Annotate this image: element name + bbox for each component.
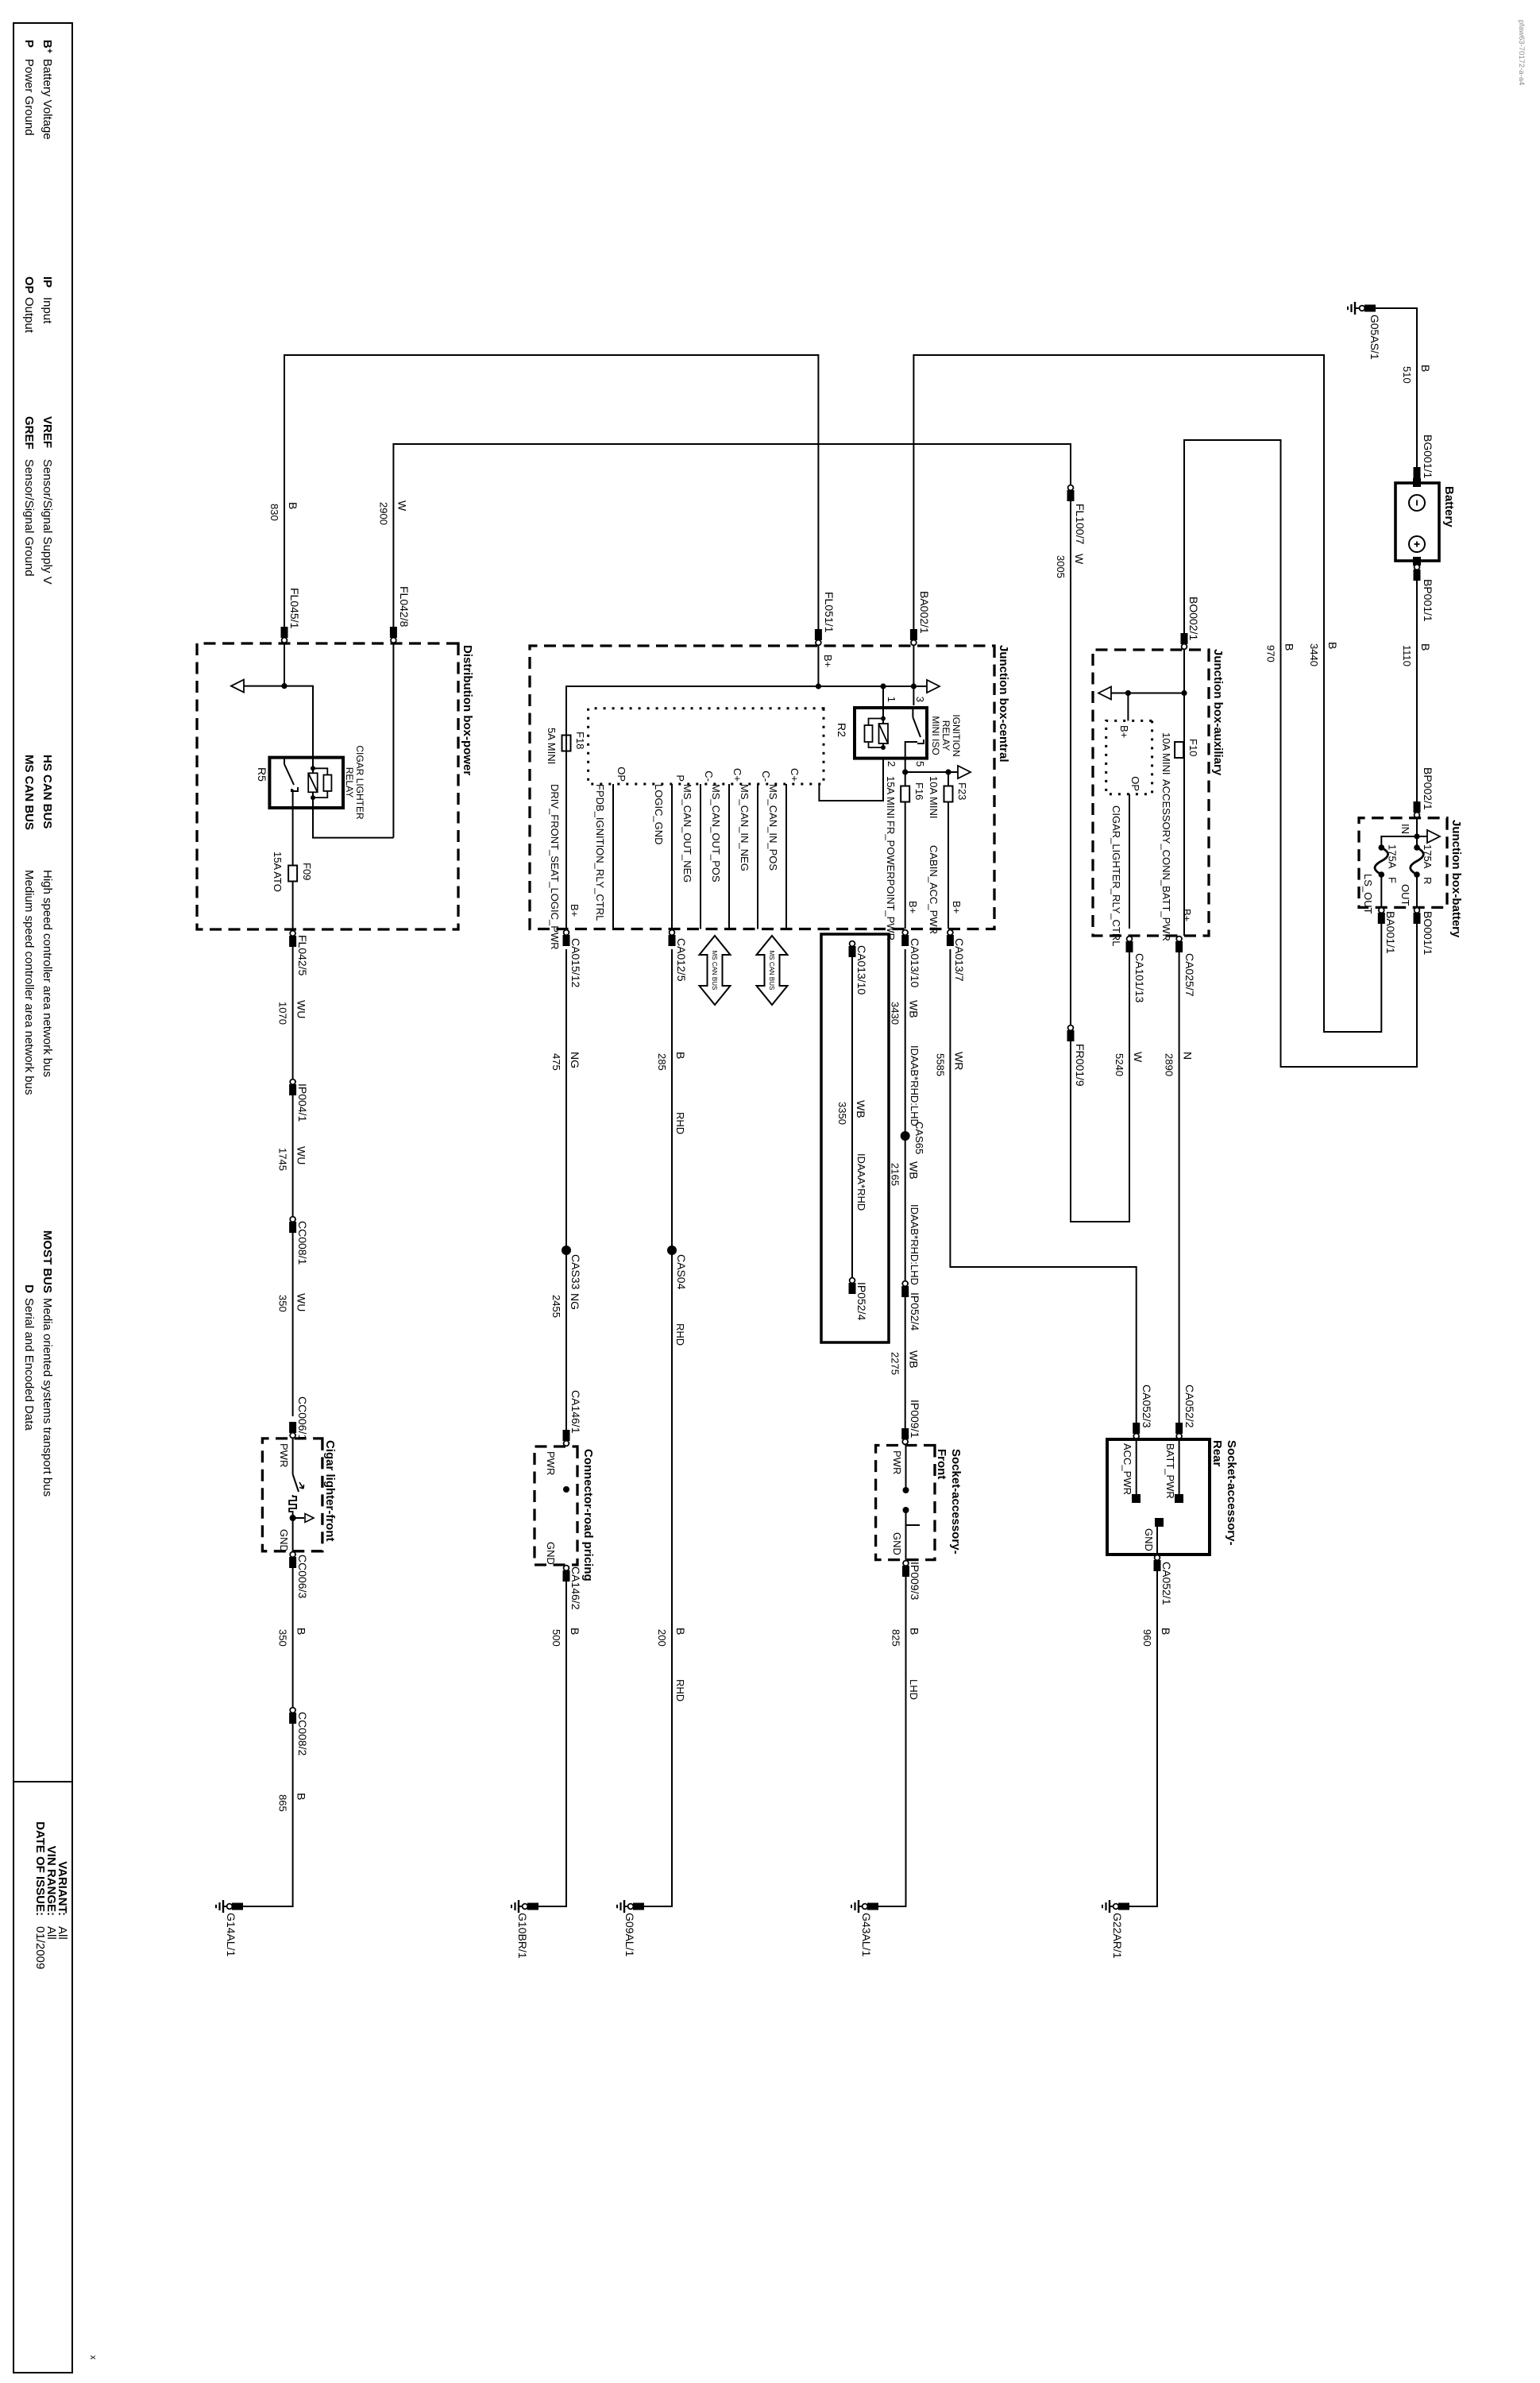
svg-text:510: 510 bbox=[1401, 366, 1413, 384]
battery bbox=[1395, 483, 1439, 561]
svg-text:Medium speed controller area n: Medium speed controller area network bus bbox=[22, 870, 36, 1095]
svg-text:3005: 3005 bbox=[1055, 555, 1067, 578]
svg-text:IP009/3: IP009/3 bbox=[909, 1562, 921, 1600]
svg-text:15A ATO: 15A ATO bbox=[272, 852, 284, 892]
svg-text:W: W bbox=[396, 500, 408, 512]
connector CA101/13 bbox=[1126, 941, 1133, 952]
connector IP052/4 powerpoint bbox=[901, 1286, 909, 1297]
svg-text:175A: 175A bbox=[1386, 844, 1398, 869]
connector CA052/1 bbox=[1129, 1555, 1157, 1906]
wire B 830 branch bbox=[284, 355, 818, 686]
ground G05AS/1 bbox=[1355, 307, 1359, 309]
pin5 output wire bbox=[905, 759, 906, 929]
svg-text:Cigar lighter-front: Cigar lighter-front bbox=[323, 1440, 337, 1542]
svg-text:1: 1 bbox=[886, 697, 897, 702]
svg-text:IP: IP bbox=[41, 276, 54, 288]
rear socket GND pin bbox=[1155, 1518, 1164, 1527]
svg-text:B: B bbox=[674, 1052, 687, 1059]
connector FL045/1 bbox=[281, 627, 288, 638]
connector CA025/7 bbox=[1175, 941, 1183, 952]
B+ bus bbox=[566, 686, 928, 929]
wire B 970 to junction box-auxiliary bbox=[1184, 440, 1417, 1067]
connector BO001/1 bbox=[1414, 913, 1421, 924]
svg-text:3430: 3430 bbox=[890, 1002, 901, 1025]
svg-text:CA025/7: CA025/7 bbox=[1183, 953, 1196, 997]
R5 coil return bbox=[313, 798, 393, 838]
svg-text:LOGIC_GND: LOGIC_GND bbox=[653, 784, 665, 845]
svg-text:LHD: LHD bbox=[908, 1679, 920, 1700]
svg-text:825: 825 bbox=[890, 1629, 902, 1647]
svg-text:IP004/1: IP004/1 bbox=[296, 1083, 309, 1122]
svg-text:285: 285 bbox=[656, 1053, 668, 1071]
svg-text:CA146/1: CA146/1 bbox=[569, 1390, 582, 1434]
svg-text:3: 3 bbox=[914, 697, 926, 702]
svg-text:F23: F23 bbox=[956, 782, 968, 800]
svg-text:BATT_PWR: BATT_PWR bbox=[1164, 1443, 1176, 1499]
svg-text:2890: 2890 bbox=[1164, 1053, 1175, 1076]
wire WB 3350 bbox=[851, 941, 853, 1293]
svg-text:GND: GND bbox=[891, 1532, 903, 1555]
svg-text:GND: GND bbox=[1143, 1528, 1155, 1551]
svg-text:5585: 5585 bbox=[934, 1053, 946, 1076]
connector CC008/2 bbox=[289, 1713, 296, 1724]
connector CA013/10 powerpoint bbox=[901, 935, 909, 946]
svg-text:CC008/1: CC008/1 bbox=[296, 1221, 309, 1265]
arrow up bbox=[1417, 836, 1429, 837]
svg-text:R2: R2 bbox=[836, 723, 848, 737]
connector BA001/1 bbox=[1378, 913, 1385, 924]
R2 coil bbox=[882, 708, 884, 747]
svg-text:WU: WU bbox=[295, 1293, 308, 1311]
svg-text:IP052/4: IP052/4 bbox=[909, 1292, 921, 1331]
svg-text:350: 350 bbox=[277, 1295, 289, 1312]
svg-text:RHD: RHD bbox=[674, 1112, 686, 1134]
junction box-central bbox=[530, 646, 994, 929]
svg-text:WB: WB bbox=[855, 1100, 867, 1118]
svg-text:G10BR/1: G10BR/1 bbox=[516, 1913, 529, 1959]
svg-text:FL042/5: FL042/5 bbox=[296, 935, 309, 976]
ground G43AL/1 bbox=[867, 1903, 878, 1910]
svg-text:DRIV_FRONT_SEAT_LOGIC_PWR: DRIV_FRONT_SEAT_LOGIC_PWR bbox=[549, 784, 561, 950]
connector CC006/3 bbox=[242, 1551, 293, 1906]
wire B 3440 feed bbox=[913, 355, 1381, 1032]
svg-text:B: B bbox=[1160, 1628, 1172, 1635]
svg-text:3350: 3350 bbox=[836, 1102, 848, 1125]
svg-text:CA101/13: CA101/13 bbox=[1133, 953, 1146, 1002]
svg-text:B+: B+ bbox=[1118, 725, 1130, 738]
wire MS_CAN_IN_NEG bbox=[757, 784, 758, 929]
svg-text:F: F bbox=[1386, 877, 1398, 883]
svg-text:PWR: PWR bbox=[278, 1443, 290, 1467]
aux module dotted box bbox=[1106, 720, 1152, 794]
svg-text:B+: B+ bbox=[1181, 909, 1193, 921]
svg-text:MS CAN BUS: MS CAN BUS bbox=[768, 951, 775, 991]
svg-text:FL051/1: FL051/1 bbox=[823, 592, 836, 633]
svg-text:BO002/1: BO002/1 bbox=[1187, 597, 1200, 640]
svg-text:CC006/3: CC006/3 bbox=[296, 1555, 309, 1598]
svg-text:NG: NG bbox=[569, 1052, 581, 1068]
cigar lighter-front box bbox=[262, 1439, 322, 1551]
svg-text:WB: WB bbox=[908, 1000, 921, 1018]
connector-road pricing box bbox=[535, 1446, 577, 1565]
svg-text:Junction box-auxiliary: Junction box-auxiliary bbox=[1211, 649, 1225, 776]
svg-text:IP052/4: IP052/4 bbox=[855, 1282, 868, 1320]
svg-text:B: B bbox=[674, 1628, 687, 1635]
svg-text:475: 475 bbox=[550, 1053, 562, 1071]
svg-text:B+: B+ bbox=[569, 904, 581, 917]
svg-text:2: 2 bbox=[886, 761, 897, 767]
svg-text:G05AS/1: G05AS/1 bbox=[1368, 315, 1381, 360]
svg-text:Sensor/Signal Supply V: Sensor/Signal Supply V bbox=[41, 459, 54, 585]
svg-text:CAS65: CAS65 bbox=[913, 1122, 925, 1154]
svg-text:CA015/12: CA015/12 bbox=[569, 938, 582, 987]
svg-text:R5: R5 bbox=[256, 767, 268, 782]
wire MS_CAN_OUT_NEG bbox=[700, 784, 701, 929]
svg-text:x: x bbox=[88, 2355, 98, 2360]
svg-text:FPDB_IGNITION_RLY_CTRL: FPDB_IGNITION_RLY_CTRL bbox=[594, 784, 606, 921]
relay R2 bbox=[855, 708, 927, 759]
svg-text:175A: 175A bbox=[1422, 844, 1434, 869]
svg-text:HS CAN BUS: HS CAN BUS bbox=[41, 755, 54, 828]
svg-text:MS_CAN_OUT_NEG: MS_CAN_OUT_NEG bbox=[681, 784, 693, 883]
wire NG 475 seat logic bbox=[565, 686, 567, 929]
connector BG001/1 bbox=[1414, 467, 1421, 478]
svg-text:5: 5 bbox=[914, 761, 926, 767]
connector IP009/3 bbox=[878, 1560, 906, 1906]
socket-accessory-front box bbox=[876, 1446, 935, 1560]
svg-text:10A MINI: 10A MINI bbox=[1160, 732, 1172, 774]
svg-text:MINI ISO: MINI ISO bbox=[930, 716, 941, 755]
ground G10BR/1 bbox=[527, 1903, 538, 1910]
wire W 2900 / W 3005 cigar relay control bbox=[393, 444, 1129, 1222]
svg-text:ACCESSORY_CONN_BATT_PWR: ACCESSORY_CONN_BATT_PWR bbox=[1160, 779, 1172, 941]
connector BO002/1 bbox=[1181, 633, 1188, 644]
central bus arrow to F23 bbox=[905, 772, 948, 929]
svg-text:1745: 1745 bbox=[277, 1148, 289, 1171]
svg-text:OP: OP bbox=[1129, 776, 1141, 791]
svg-text:MS_CAN_IN_POS: MS_CAN_IN_POS bbox=[767, 784, 779, 871]
svg-text:960: 960 bbox=[1141, 1629, 1153, 1647]
svg-text:IDAAA*RHD: IDAAA*RHD bbox=[855, 1153, 867, 1211]
svg-text:CA013/10: CA013/10 bbox=[855, 945, 868, 995]
svg-text:Connector-road pricing: Connector-road pricing bbox=[581, 1449, 595, 1582]
svg-text:IDAAB*RHD:LHD: IDAAB*RHD:LHD bbox=[909, 1045, 921, 1126]
svg-text:VREF: VREF bbox=[41, 416, 54, 448]
svg-text:B: B bbox=[295, 1628, 308, 1635]
svg-text:Power Ground: Power Ground bbox=[22, 59, 36, 136]
R2 switch bbox=[912, 708, 913, 717]
svg-text:GND: GND bbox=[545, 1542, 557, 1565]
svg-text:FL042/8: FL042/8 bbox=[398, 586, 411, 628]
svg-text:FL045/1: FL045/1 bbox=[288, 588, 301, 629]
svg-text:IGNITION: IGNITION bbox=[951, 714, 962, 756]
svg-text:High speed controller area net: High speed controller area network bus bbox=[41, 870, 54, 1077]
connector IP004/1 bbox=[289, 1084, 296, 1095]
svg-text:B: B bbox=[1326, 642, 1339, 649]
svg-text:CA052/2: CA052/2 bbox=[1183, 1385, 1196, 1428]
central module dotted box bbox=[589, 709, 824, 784]
svg-text:MS CAN BUS: MS CAN BUS bbox=[711, 951, 718, 991]
MS CAN BUS arrow in pair bbox=[757, 936, 788, 1005]
svg-text:DATE OF ISSUE:: DATE OF ISSUE: bbox=[33, 1821, 47, 1916]
ground G09AL/1 bbox=[633, 1903, 644, 1910]
svg-text:IDAAB*RHD:LHD: IDAAB*RHD:LHD bbox=[909, 1204, 921, 1285]
svg-text:10A MINI: 10A MINI bbox=[928, 776, 940, 818]
junction CAS33 bbox=[565, 1249, 567, 1251]
connector FL100/7 bbox=[1067, 490, 1075, 501]
svg-text:OUT: OUT bbox=[1399, 884, 1411, 906]
svg-text:NG: NG bbox=[569, 1293, 581, 1310]
svg-text:865: 865 bbox=[277, 1794, 289, 1812]
svg-text:1070: 1070 bbox=[277, 1002, 289, 1025]
connector CA146/1 bbox=[563, 1430, 570, 1441]
svg-text:350: 350 bbox=[277, 1629, 289, 1647]
svg-text:CIGAR LIGHTER: CIGAR LIGHTER bbox=[354, 745, 365, 820]
svg-text:2165: 2165 bbox=[890, 1163, 901, 1186]
fuse F16 bbox=[901, 786, 909, 802]
svg-text:15A MINI: 15A MINI bbox=[885, 776, 897, 818]
svg-text:WB: WB bbox=[908, 1350, 921, 1369]
fuse 175A F branch bbox=[1381, 836, 1417, 848]
svg-text:P: P bbox=[674, 774, 686, 782]
svg-text:Serial and Encoded Data: Serial and Encoded Data bbox=[22, 1298, 36, 1431]
relay R2 pin 1 wire bbox=[882, 686, 884, 708]
svg-text:FR001/9: FR001/9 bbox=[1074, 1044, 1086, 1087]
svg-text:F09: F09 bbox=[301, 863, 313, 880]
connector FL042/5 bbox=[292, 934, 294, 1416]
svg-text:BP001/1: BP001/1 bbox=[1422, 579, 1434, 622]
svg-text:1110: 1110 bbox=[1401, 645, 1413, 666]
svg-text:5A MINI: 5A MINI bbox=[546, 728, 558, 764]
fuse F10 bbox=[1183, 650, 1185, 936]
wire B 1110 bbox=[1416, 561, 1418, 817]
svg-text:RHD: RHD bbox=[674, 1679, 686, 1701]
switch feed bbox=[284, 686, 313, 758]
svg-text:B: B bbox=[1283, 643, 1296, 651]
junction CAS65 bbox=[901, 1131, 910, 1141]
svg-text:Battery Voltage: Battery Voltage bbox=[41, 59, 54, 140]
svg-text:ACC_PWR: ACC_PWR bbox=[1121, 1443, 1133, 1495]
wire WR 5585 bbox=[950, 949, 1136, 1439]
wire N 2890 bbox=[1179, 949, 1180, 1439]
svg-text:F16: F16 bbox=[913, 782, 925, 800]
svg-text:C-: C- bbox=[760, 771, 772, 782]
svg-text:FL100/7: FL100/7 bbox=[1074, 504, 1086, 545]
svg-text:CA013/7: CA013/7 bbox=[953, 938, 966, 982]
R2 pin2 coil return bbox=[819, 759, 883, 801]
svg-text:BO001/1: BO001/1 bbox=[1422, 911, 1434, 955]
aux B+ pin stub bbox=[1127, 693, 1129, 721]
svg-text:B+: B+ bbox=[822, 655, 834, 667]
svg-text:B: B bbox=[295, 1793, 308, 1800]
ground G14AL/1 bbox=[232, 1903, 243, 1910]
svg-text:W: W bbox=[1132, 1052, 1144, 1063]
svg-text:F10: F10 bbox=[1187, 739, 1199, 756]
svg-text:pfaw63-70172-a-a4: pfaw63-70172-a-a4 bbox=[1517, 20, 1526, 85]
svg-text:B: B bbox=[1419, 365, 1432, 372]
svg-text:OP: OP bbox=[22, 276, 36, 294]
svg-text:G14AL/1: G14AL/1 bbox=[225, 1913, 237, 1956]
svg-text:2900: 2900 bbox=[377, 502, 389, 525]
wire CIGAR_LIGHTER_RLY_CTRL bbox=[1129, 794, 1130, 929]
svg-text:WR: WR bbox=[952, 1052, 965, 1070]
svg-text:G22AR/1: G22AR/1 bbox=[1111, 1913, 1124, 1959]
svg-text:CA013/10: CA013/10 bbox=[909, 938, 921, 987]
svg-text:GND: GND bbox=[278, 1529, 290, 1552]
svg-text:Socket-accessory-: Socket-accessory- bbox=[949, 1449, 963, 1555]
svg-text:B: B bbox=[1419, 643, 1432, 651]
connector CA013/7 bbox=[947, 935, 954, 946]
inline wire box WB 3350 bbox=[821, 934, 889, 1342]
svg-text:2275: 2275 bbox=[890, 1352, 901, 1375]
svg-text:CAS04: CAS04 bbox=[675, 1254, 688, 1290]
R5 coil bbox=[312, 758, 314, 798]
svg-text:RELAY: RELAY bbox=[344, 767, 355, 798]
svg-text:WU: WU bbox=[295, 1146, 308, 1164]
svg-text:Distribution box-power: Distribution box-power bbox=[461, 645, 474, 775]
svg-text:Battery: Battery bbox=[1442, 486, 1456, 527]
svg-text:B: B bbox=[909, 1628, 921, 1635]
MS CAN BUS arrow out pair bbox=[700, 936, 731, 1005]
svg-text:CA052/1: CA052/1 bbox=[1160, 1562, 1173, 1605]
connector CA052/3 bbox=[1133, 1423, 1140, 1434]
svg-text:2455: 2455 bbox=[550, 1295, 562, 1318]
cigar lighter element bbox=[292, 1439, 294, 1474]
svg-text:Media oriented systems transpo: Media oriented systems transport bus bbox=[41, 1298, 54, 1497]
svg-text:N: N bbox=[1182, 1052, 1195, 1060]
svg-text:200: 200 bbox=[656, 1629, 668, 1647]
svg-text:BG001/1: BG001/1 bbox=[1422, 435, 1434, 478]
svg-text:Junction box-central: Junction box-central bbox=[997, 645, 1010, 763]
svg-text:F18: F18 bbox=[574, 732, 586, 749]
svg-text:CC008/2: CC008/2 bbox=[296, 1712, 309, 1755]
svg-text:MS_CAN_OUT_POS: MS_CAN_OUT_POS bbox=[710, 784, 722, 883]
svg-text:C+: C+ bbox=[789, 768, 801, 782]
svg-text:G43AL/1: G43AL/1 bbox=[860, 1913, 873, 1956]
ground G22AR/1 bbox=[1118, 1903, 1129, 1910]
svg-text:D: D bbox=[22, 1284, 36, 1293]
node IN bbox=[1416, 818, 1418, 848]
connector CA146/2 bbox=[538, 1565, 566, 1906]
connector CC006/1 bbox=[289, 1422, 296, 1433]
wire MS_CAN_IN_POS bbox=[785, 784, 787, 929]
svg-text:WU: WU bbox=[295, 1000, 308, 1018]
svg-text:B: B bbox=[287, 502, 299, 509]
connector FL051/1 bbox=[815, 629, 822, 640]
svg-text:RHD: RHD bbox=[674, 1323, 686, 1346]
R5 switch bbox=[284, 758, 285, 764]
svg-text:CAS33: CAS33 bbox=[569, 1254, 582, 1290]
svg-text:CIGAR_LIGHTER_RLY_CTRL: CIGAR_LIGHTER_RLY_CTRL bbox=[1110, 805, 1122, 946]
svg-text:R: R bbox=[1422, 877, 1434, 884]
svg-text:500: 500 bbox=[550, 1629, 562, 1647]
junction box-battery bbox=[1359, 818, 1447, 908]
wire MS_CAN_OUT_POS bbox=[728, 784, 730, 929]
fuse F23 bbox=[944, 786, 953, 802]
road pricing pins bbox=[563, 1486, 569, 1493]
rear socket BATT_PWR pin bbox=[1179, 1439, 1180, 1497]
relay R5 bbox=[269, 758, 343, 808]
svg-text:PWR: PWR bbox=[545, 1451, 557, 1475]
distribution internal arrow bbox=[243, 686, 284, 687]
svg-text:C+: C+ bbox=[731, 768, 743, 782]
svg-text:IP009/1: IP009/1 bbox=[909, 1400, 921, 1438]
connector IP009/1 bbox=[901, 1428, 909, 1439]
cigar gnd arrow bbox=[290, 1515, 296, 1521]
front socket pins bbox=[905, 1446, 907, 1491]
svg-text:CA012/5: CA012/5 bbox=[675, 938, 688, 982]
fuse 175A R bbox=[1414, 844, 1420, 851]
svg-text:C-: C- bbox=[703, 771, 715, 782]
svg-text:OP: OP bbox=[616, 767, 627, 782]
svg-text:Socket-accessory-: Socket-accessory- bbox=[1225, 1440, 1238, 1546]
svg-text:Input: Input bbox=[41, 297, 54, 324]
svg-text:3440: 3440 bbox=[1308, 643, 1320, 666]
distribution box-power bbox=[197, 643, 458, 929]
svg-text:MS_CAN_IN_NEG: MS_CAN_IN_NEG bbox=[739, 784, 751, 871]
svg-text:830: 830 bbox=[268, 504, 280, 521]
junction CAS04 bbox=[667, 1246, 677, 1255]
svg-text:WB: WB bbox=[908, 1161, 921, 1180]
svg-text:MOST BUS: MOST BUS bbox=[41, 1230, 54, 1293]
socket-accessory-rear box bbox=[1107, 1439, 1210, 1555]
svg-text:970: 970 bbox=[1265, 645, 1277, 662]
svg-text:FR_POWERPOINT_PWR: FR_POWERPOINT_PWR bbox=[885, 821, 897, 940]
connector FL042/8 bbox=[390, 627, 397, 638]
connector BP002/1 bbox=[1414, 801, 1421, 813]
svg-text:BA002/1: BA002/1 bbox=[918, 591, 931, 634]
svg-text:Rear: Rear bbox=[1210, 1440, 1224, 1467]
svg-text:CA052/3: CA052/3 bbox=[1141, 1385, 1153, 1428]
svg-text:BP002/1: BP002/1 bbox=[1422, 767, 1434, 810]
rear socket ACC_PWR pin bbox=[1136, 1439, 1137, 1497]
connector BA002/1 bbox=[910, 629, 917, 640]
svg-text:01/2009: 01/2009 bbox=[33, 1926, 47, 1969]
connector CA052/2 bbox=[1175, 1423, 1183, 1434]
svg-text:PWR: PWR bbox=[891, 1450, 903, 1474]
svg-text:B+: B+ bbox=[907, 901, 919, 913]
connector CC008/1 bbox=[289, 1222, 296, 1233]
svg-text:CABIN_ACC_PWR: CABIN_ACC_PWR bbox=[928, 845, 940, 934]
svg-text:Sensor/Signal Ground: Sensor/Signal Ground bbox=[22, 459, 36, 577]
svg-text:Front: Front bbox=[935, 1449, 948, 1479]
connector FR001/9 bbox=[1067, 1030, 1075, 1041]
fuse F09 bbox=[292, 808, 294, 929]
svg-text:GREF: GREF bbox=[22, 416, 36, 450]
svg-text:Output: Output bbox=[22, 297, 36, 334]
svg-text:B: B bbox=[569, 1628, 581, 1635]
wire B 285 logic gnd bbox=[669, 935, 676, 946]
svg-text:5240: 5240 bbox=[1114, 1053, 1125, 1076]
svg-text:Junction box-battery: Junction box-battery bbox=[1449, 820, 1463, 938]
aux internal arrow bbox=[1110, 693, 1184, 694]
wire DRIV_FRONT_SEAT_LOGIC_PWR with fuse F18 bbox=[562, 736, 571, 751]
svg-text:BA001/1: BA001/1 bbox=[1384, 911, 1397, 954]
svg-text:P: P bbox=[22, 40, 36, 48]
junction box-auxiliary bbox=[1093, 650, 1209, 936]
wire LOGIC_GND bbox=[671, 784, 673, 929]
svg-text:CA146/2: CA146/2 bbox=[569, 1566, 582, 1610]
legend box bbox=[14, 23, 72, 2373]
svg-text:IN: IN bbox=[1399, 824, 1411, 834]
svg-text:W: W bbox=[1073, 554, 1086, 565]
svg-text:G09AL/1: G09AL/1 bbox=[623, 1913, 636, 1956]
wire FPDB_IGNITION_RLY_CTRL bbox=[612, 784, 614, 929]
svg-text:CC006/1: CC006/1 bbox=[296, 1396, 309, 1440]
svg-text:RELAY: RELAY bbox=[940, 720, 951, 751]
svg-text:B+: B+ bbox=[951, 901, 963, 913]
svg-text:LS_OUT: LS_OUT bbox=[1362, 874, 1374, 914]
